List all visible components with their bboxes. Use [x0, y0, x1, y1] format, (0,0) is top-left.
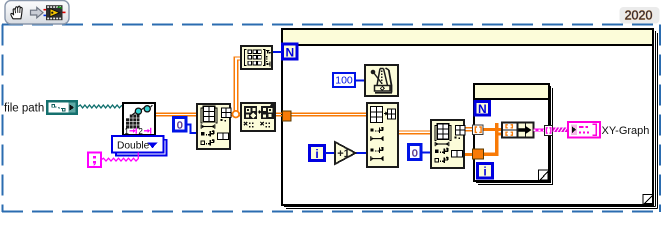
svg-text:file path: file path	[4, 103, 44, 115]
svg-text:0: 0	[177, 119, 183, 131]
svg-text:Double: Double	[117, 140, 150, 151]
svg-text:XY-Graph: XY-Graph	[602, 125, 650, 137]
svg-text:1: 1	[124, 127, 129, 136]
svg-text:N: N	[478, 102, 487, 116]
svg-text:i: i	[483, 165, 486, 179]
svg-text:N: N	[285, 46, 294, 60]
svg-text:2020: 2020	[625, 9, 653, 23]
svg-text:+1: +1	[337, 148, 350, 160]
svg-text:100: 100	[335, 75, 353, 87]
svg-text:i: i	[315, 147, 318, 161]
svg-text:0: 0	[412, 147, 418, 159]
svg-text:2: 2	[138, 127, 143, 136]
